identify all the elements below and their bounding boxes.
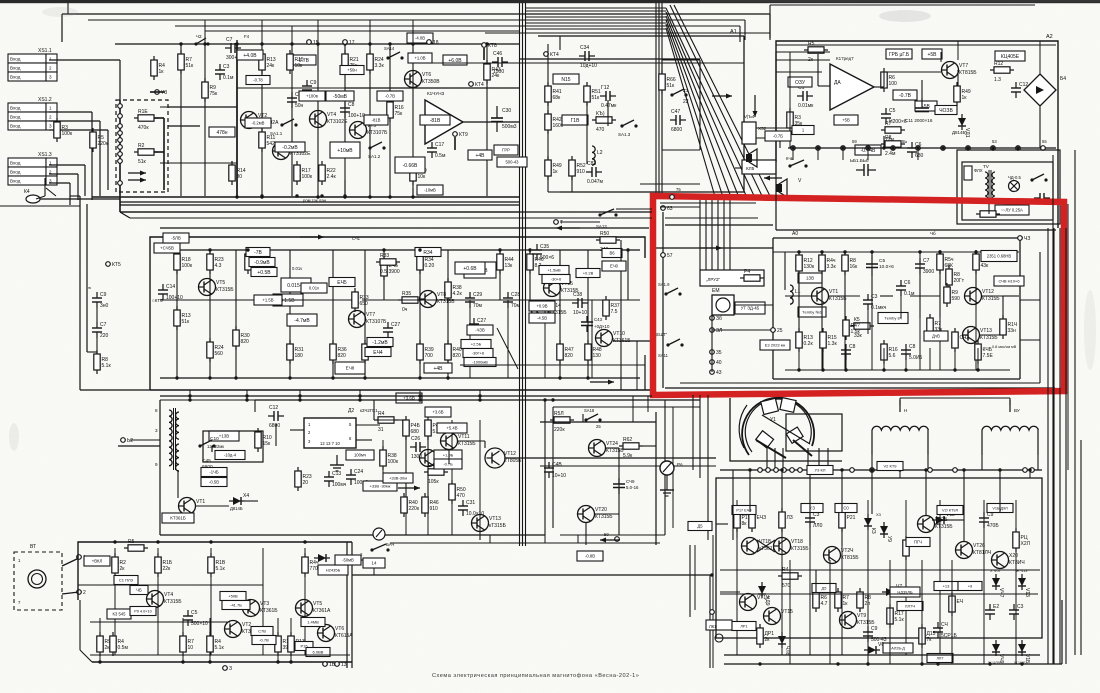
value label +0.6В [455,262,485,274]
wire seam bundle [525,0,527,546]
diode VЧ9 [992,640,1004,664]
svg-text:СЧ2: СЧ2 [960,335,970,341]
wire [613,340,653,342]
capacitor C27 [383,322,400,338]
wire [107,130,109,190]
svg-text:В6: В6 [609,251,615,256]
wire feeder [717,200,719,270]
wire [163,118,165,190]
svg-text:VТ18: VТ18 [791,539,803,545]
svg-text:КТ361Б: КТ361Б [260,608,278,614]
transformer T1 [155,408,179,471]
wire [789,100,791,148]
resistor R4 [110,632,129,656]
value label +4В [468,150,492,160]
svg-text:ЬБ1.БЬб: ЬБ1.БЬб [850,158,869,163]
terminal on A2 bus [791,146,796,151]
flow arrow [712,94,732,99]
flow arrow [753,95,758,117]
wire [485,32,770,34]
motor EM [712,288,734,315]
value label -7В [246,248,270,257]
value label -0.2мВ [245,118,271,128]
value label ЛЛ7Ч [897,602,923,611]
junction [976,368,979,371]
transistor VT12 [485,448,522,468]
wire chain [867,500,869,655]
wire bus [160,249,640,251]
svg-text:5.9к: 5.9к [623,453,633,459]
wire [160,162,237,164]
svg-text:8к: 8к [742,521,748,527]
svg-text:„ЛРУЗ": „ЛРУЗ" [706,277,721,282]
wire [680,382,1040,384]
wire vertical [655,412,657,545]
wire [939,270,941,310]
transistor VT24 [589,440,625,457]
value label ЛЛ7 [927,654,953,663]
resistor R4ч [819,251,837,275]
svg-text:43к: 43к [981,263,990,269]
capacitor C35 [532,244,554,261]
wire fan [666,8,756,200]
svg-text:КТ8ИЧ: КТ8ИЧ [1009,560,1025,566]
scan smudge [42,7,78,17]
wire [548,191,560,193]
switch contact [118,138,123,143]
junction [276,660,279,663]
wire [935,523,940,525]
svg-text:ЅА1.3: ЅА1.3 [618,132,631,137]
terminal on motor bus [1030,468,1035,473]
wire [150,389,652,391]
capacitor [1034,193,1050,203]
value label К3 545 [107,609,131,619]
junction [316,42,319,45]
svg-text:470: 470 [457,493,466,499]
wire chain [291,44,293,196]
svg-text:R35: R35 [402,291,411,297]
svg-text:Z1: Z1 [683,88,689,93]
svg-text:КТ315Б: КТ315Б [595,514,613,520]
svg-text:R2: R2 [138,143,145,149]
terminal 1Б [323,662,336,668]
wire [168,106,237,108]
svg-text:220к: 220к [554,427,565,433]
wire stub [261,20,263,44]
terminal 13 [335,662,347,668]
resistor R4ч [302,553,319,577]
transistor VT3 [273,143,312,160]
svg-text:C5: C5 [889,108,896,114]
resistor R1З [796,328,814,352]
value label Д5 [688,522,712,531]
switch SA1.2 [368,142,385,150]
svg-text:+СЧ5В: +СЧ5В [160,246,174,251]
svg-text:500-43: 500-43 [505,160,519,165]
resistor R46 [422,493,439,517]
junction [98,660,101,663]
svg-text:ЛЛ7: ЛЛ7 [936,656,943,660]
wire [479,532,481,540]
wire [711,315,713,372]
svg-text:Х20: Х20 [1009,553,1018,559]
svg-text:+0Д×10: +0Д×10 [594,324,610,329]
terminal on red line [670,195,675,200]
module C10 box [203,431,263,462]
svg-text:C17: C17 [435,142,444,148]
svg-text:100: 100 [889,81,898,87]
terminal 17 [343,40,355,46]
wire inner bus [460,364,645,366]
resistor R1Е [134,109,158,131]
wire fan [666,20,732,200]
svg-text:VT13: VT13 [980,328,992,334]
svg-text:-1.2мВ: -1.2мВ [372,340,388,346]
svg-text:У1: У1 [770,417,776,423]
wire chain [114,548,116,655]
svg-text:КТ315Б: КТ315Б [935,524,953,530]
junction [418,376,421,379]
svg-text:105к: 105к [428,479,439,485]
wire [712,329,773,331]
wire chain [209,618,211,662]
resistor Р17 [734,508,751,532]
junction [203,42,206,45]
wire to bottom bus [822,348,824,370]
svg-text:+100в: +100в [306,94,318,99]
resistor ЕЧ [949,592,963,616]
svg-text:Вход: Вход [10,115,21,120]
resistor R6 [881,68,897,92]
svg-text:220к: 220к [98,141,109,147]
diode VЧ7 [992,574,1004,598]
value label +0.9В [529,301,555,311]
svg-text:-7В: -7В [254,250,262,256]
wire [62,13,770,15]
wire [749,470,751,512]
svg-text:+4.0В: +4.0В [243,53,257,59]
value label -0.7В [290,55,316,65]
svg-text:C38: C38 [573,292,582,298]
resistor R34 [417,250,435,274]
wire chain [627,250,629,300]
terminal КТ9 [453,132,468,138]
svg-text:С10: С10 [210,436,219,442]
wire [980,334,1003,336]
svg-text:+2.5Б: +2.5Б [471,341,482,346]
block RCH box [700,270,764,286]
transistor VT10 [596,330,632,347]
svg-text:VT20: VT20 [595,507,607,513]
wire [999,470,1001,512]
connector XS2 [742,114,767,144]
value label ПГЧ [906,538,930,547]
svg-text:18: 18 [433,40,439,46]
svg-text:3н0: 3н0 [100,303,109,309]
junction [208,376,211,379]
junction [298,398,301,401]
diode V12 [932,512,955,524]
terminal 2 [77,590,86,596]
resistor R5ч [937,250,954,274]
transistor VT6 [318,625,354,642]
svg-text:Р21: Р21 [847,515,856,521]
resistor R62 [619,437,643,459]
resistor R50 [449,480,466,504]
resistor Р21 [839,508,856,532]
value label СЧВ Н10×6 [994,276,1024,286]
capacitor C30 electrolytic [491,106,517,132]
wire bus bottom [785,369,1010,371]
resistor R40 [401,493,420,517]
wire chain [781,500,783,655]
svg-text:ЕМ: ЕМ [712,288,720,294]
wire chain [262,548,264,655]
svg-text:75: 75 [676,187,681,192]
svg-text:кТ315Б: кТ315Б [489,523,507,529]
junction [841,146,844,149]
resistor R23 [295,467,312,491]
svg-text:VТ26: VТ26 [973,543,985,549]
wire [205,30,520,32]
wire fan [666,16,740,200]
value label 1ЗВ [798,273,822,283]
svg-text:КТ315Б: КТ315Б [458,441,476,447]
svg-text:ЕЧ5: ЕЧ5 [337,280,347,286]
svg-text:-0.7В: -0.7В [259,637,269,642]
resistor R16 [881,340,898,364]
value label 100мч [346,450,374,460]
svg-text:C35: C35 [540,244,549,250]
junction [446,376,449,379]
wire chain [841,500,843,655]
terminal on A2 bus [1016,146,1021,151]
terminal on A2 bus [941,146,946,151]
wire [46,188,56,196]
wire chain [304,548,306,655]
transistor VT5 [296,600,332,617]
resistor R40 [445,340,462,364]
svg-text:Зб: Зб [716,316,722,322]
transformer ТV windings [983,164,995,204]
svg-text:16к: 16к [850,264,859,270]
svg-text:0.047м: 0.047м [587,179,604,185]
junction [710,573,713,576]
svg-text:C9: C9 [310,80,317,86]
wire chain [405,420,407,535]
wire [560,221,600,223]
wire [130,217,520,219]
wire stub [369,20,371,44]
wire stub [489,535,491,543]
wire chain [369,44,371,196]
svg-text:VТ15: VТ15 [781,609,793,615]
value label -41.7Б [222,601,250,610]
resistor R9 [944,283,960,307]
svg-text:7.5: 7.5 [611,309,618,315]
svg-text:-ЧЗВ: -ЧЗВ [475,328,485,333]
resistor R7 [927,314,943,338]
junction [260,194,263,197]
head wiring box [786,414,842,451]
resistor ЛЗ [779,508,793,532]
wire chain [210,548,212,655]
value label У.З [801,504,823,513]
resistor R31 [287,340,304,364]
wire chain [176,250,178,378]
svg-text:ЅА1.2: ЅА1.2 [368,154,381,159]
wire [775,52,777,162]
svg-text:-0.7Б: -0.7Б [773,134,783,139]
wire [454,137,456,150]
transistor VT5 [350,122,389,139]
svg-text:К1ЧУНЗ: К1ЧУНЗ [427,91,445,96]
svg-text:СЧ1: СЧ1 [352,236,361,241]
svg-text:220к: 220к [409,506,420,512]
wire fan [674,5,772,200]
capacitor C17 [427,142,446,159]
capacitor C83 [586,161,604,185]
svg-text:10: 10 [188,645,194,651]
op-amp D1 [425,100,463,144]
wire chain [591,300,593,378]
value label -30Г+6 [463,349,493,358]
svg-text:ДА: ДА [834,80,841,86]
svg-text:Б4: Б4 [1060,76,1066,82]
wire to bottom bus [977,348,979,370]
wire [736,528,738,538]
svg-text:R12: R12 [994,61,1003,67]
wire [1039,41,1041,74]
resistor R24 [367,50,385,74]
resistor R33 [352,288,369,312]
junction [1020,662,1023,665]
wire [739,26,741,42]
resistor R13 [288,632,305,656]
svg-text:КТ350В: КТ350В [422,79,440,85]
resistor R44 [843,316,861,340]
svg-text:КТ9: КТ9 [459,132,468,138]
svg-text:C14: C14 [166,284,175,290]
wire bus [773,251,1019,253]
svg-text:V13: V13 [1024,588,1030,597]
junction [920,662,923,665]
svg-text:Д814Б: Д814Б [230,506,243,511]
svg-text:0.5: 0.5 [380,269,387,275]
svg-text:C6: C6 [904,280,911,286]
svg-text:ТV: ТV [983,164,990,169]
svg-text:+0.2В: +0.2В [583,270,594,275]
svg-text:F4: F4 [244,34,250,39]
value label Р9 4.0×10 [130,607,156,616]
wire stub [544,535,546,543]
svg-text:Е3 2023 мк: Е3 2023 мк [765,342,786,347]
wire feeder [711,200,713,270]
svg-text:2к: 2к [120,566,126,572]
capacitor C8 [340,102,365,119]
value label -4.0В [407,33,433,43]
wire chain [383,250,385,300]
svg-text:1к: 1к [843,601,849,607]
wire [841,470,843,478]
transistor VТ9 [840,612,876,629]
svg-text:57: 57 [667,253,673,259]
svg-text:-0.2мВ: -0.2мВ [282,145,298,151]
wire [99,121,101,196]
wire [96,338,98,354]
svg-text:+1.5мВ: +1.5мВ [547,267,561,272]
wire [867,560,869,664]
svg-text:R5: R5 [128,539,135,545]
wire [756,127,788,129]
svg-text:ЛЛ7Ч: ЛЛ7Ч [905,603,915,608]
value label +0.2В [576,269,600,278]
diode ЧЛ8 [778,632,790,656]
resistor R50 [596,231,620,253]
wire [463,121,519,123]
value label -30+6 [542,275,570,284]
value label 14 [363,558,385,568]
wire [867,150,869,160]
flow arrow [128,178,146,183]
wire [430,62,744,64]
block A3 right edge [1019,238,1021,379]
wire [871,276,873,300]
relay K45 [742,160,776,174]
svg-text:Вход: Вход [10,106,21,111]
svg-text:-30+6: -30+6 [551,276,562,281]
svg-text:51к: 51к [667,83,676,89]
svg-text:ЛЛ0: ЛЛ0 [813,523,823,529]
wire feeder [705,200,707,270]
wire [290,429,304,431]
wire [1015,560,1017,664]
svg-text:VТ1Ч: VТ1Ч [757,595,770,601]
svg-text:470к: 470к [138,125,149,131]
wire to bottom bus [845,348,847,370]
value label +50н [340,66,364,75]
wire [899,470,901,478]
svg-text:VT24: VT24 [606,441,618,447]
svg-text:Ь2: Ь2 [127,438,133,444]
wire cross [757,540,775,552]
terminal [710,610,715,615]
wire [552,407,554,528]
junction [998,468,1001,471]
transistor VT7 [349,311,388,328]
svg-text:-41.7Б: -41.7Б [230,602,242,607]
resistor КЪ) [592,111,616,133]
svg-text:53: 53 [992,139,997,144]
value label N15 [553,74,579,84]
wire bus [119,100,121,212]
wire [963,470,965,478]
junction [179,42,182,45]
wire [1074,150,1076,655]
svg-text:Д2: Д2 [348,408,354,414]
wire [716,523,728,525]
wire [49,120,100,122]
junction [478,394,481,397]
svg-text:-0.78: -0.78 [253,78,263,83]
value label -0.9мВ [249,258,275,267]
wire [373,568,375,575]
svg-text:C13: C13 [332,471,341,477]
wire chain [427,420,429,535]
wire chain [844,252,846,370]
value label -0.78 [246,76,270,85]
